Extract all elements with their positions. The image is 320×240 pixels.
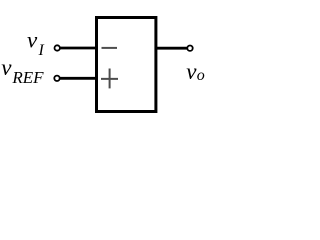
svg-text:v: v: [186, 59, 197, 84]
terminal vo: [187, 46, 192, 51]
terminal vREF: [54, 76, 59, 81]
wire vI to inverting input: [60, 47, 96, 50]
op-amp U1 (comparator body): [97, 18, 156, 112]
minus sign (inverting input label): [102, 47, 118, 49]
terminal vI: [55, 45, 60, 50]
svg-text:I: I: [38, 42, 45, 59]
svg-text:v: v: [27, 28, 38, 53]
node label vI: [27, 28, 45, 60]
wire vREF to non-inverting input: [60, 77, 96, 80]
plus sign (non-inverting input label): [101, 69, 118, 89]
svg-text:o: o: [197, 67, 205, 84]
wire output to vo terminal: [156, 47, 187, 50]
svg-text:REF: REF: [11, 68, 44, 87]
node label vo: [186, 59, 205, 84]
svg-text:v: v: [1, 55, 12, 80]
node label vREF: [1, 55, 44, 87]
